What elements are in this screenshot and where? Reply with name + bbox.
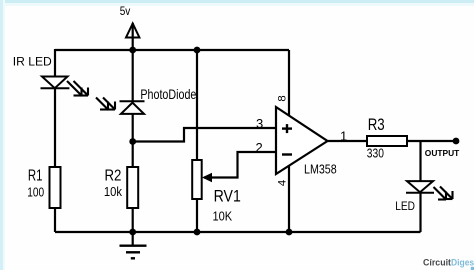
wire bottom ground rail <box>55 231 421 233</box>
output terminal dot <box>453 138 460 145</box>
resistor R2 <box>127 167 138 208</box>
ground <box>120 232 147 258</box>
op-amp minus input marking <box>282 153 292 155</box>
svg-text:5v: 5v <box>120 5 131 18</box>
svg-text:LED: LED <box>395 199 415 213</box>
svg-text:4: 4 <box>277 180 289 186</box>
node A photodiode/R2 <box>129 138 136 145</box>
wire R1 bottom to ground rail <box>54 208 56 232</box>
svg-text:3: 3 <box>256 116 263 131</box>
junction ground/R2 <box>129 229 136 236</box>
junction rail/RV1 <box>194 47 201 54</box>
svg-text:R3: R3 <box>368 116 385 134</box>
svg-text:100: 100 <box>27 184 44 199</box>
svg-text:LM358: LM358 <box>304 161 337 176</box>
svg-text:IR LED: IR LED <box>13 54 52 68</box>
power symbol 5v <box>126 24 139 38</box>
photodiode incident arrow 2 <box>103 98 115 110</box>
output LED D3 <box>406 181 434 193</box>
photodiode incident arrow 1 <box>96 98 108 110</box>
svg-text:R1: R1 <box>28 168 43 185</box>
IR LED emission arrow 1 <box>67 81 82 96</box>
photodiode D2 <box>120 101 145 114</box>
svg-text:R2: R2 <box>105 168 122 185</box>
junction rail/photodiode <box>129 47 136 54</box>
op-amp plus input marking <box>282 124 292 133</box>
svg-text:CírcuitDigest: CírcuitDigest <box>423 257 474 267</box>
wire photodiode anode to R2 top <box>132 114 134 167</box>
wire R3 to output terminal <box>407 140 456 142</box>
wire RV1 bottom to ground rail <box>196 199 198 232</box>
svg-text:1: 1 <box>340 128 347 143</box>
top cyan border <box>0 0 474 3</box>
wire op-amp pin 4 to ground rail <box>288 166 290 232</box>
resistor R1 <box>50 167 61 208</box>
junction ground/pin4 <box>286 229 293 236</box>
IR LED D1 <box>41 77 70 89</box>
IR LED emission arrow 2 <box>74 81 89 96</box>
wire LED cathode to ground rail <box>419 193 421 232</box>
svg-text:8: 8 <box>277 95 289 101</box>
left cyan border <box>0 0 3 270</box>
wire rail to RV1 top <box>196 50 198 160</box>
svg-text:OUTPUT: OUTPUT <box>425 149 460 158</box>
wire output branch to LED anode <box>419 141 421 181</box>
wire 5v rail to photodiode cathode <box>132 23 134 101</box>
potentiometer RV1 <box>192 160 202 199</box>
wire RV1 wiper to op-amp pin 2 <box>204 152 276 178</box>
output LED emission arrow 1 <box>434 187 447 200</box>
svg-text:2: 2 <box>256 140 263 155</box>
wire top rail <box>55 49 289 51</box>
svg-text:10K: 10K <box>213 208 233 223</box>
wire op-amp output pin 1 to R3 <box>326 140 367 142</box>
op-amp U1 LM358 <box>276 107 328 174</box>
logo fragment bottom right <box>471 267 474 270</box>
wire op-amp pin 8 to rail <box>288 50 290 116</box>
svg-text:330: 330 <box>367 146 384 161</box>
wire node A jog to op-amp pin 3 <box>133 128 276 142</box>
svg-text:PhotoDiode: PhotoDiode <box>140 87 196 102</box>
resistor R3 <box>367 136 407 146</box>
wire left column top (rail to IR LED anode) <box>54 49 56 77</box>
output LED emission arrow 2 <box>440 187 453 200</box>
wire IR LED cathode to R1 top <box>54 88 56 167</box>
wire R2 bottom to ground rail <box>132 208 134 232</box>
potentiometer RV1 wiper arrow <box>202 173 212 182</box>
svg-text:10k: 10k <box>104 184 123 199</box>
junction ground/RV1 <box>194 229 201 236</box>
svg-text:RV1: RV1 <box>214 187 241 205</box>
